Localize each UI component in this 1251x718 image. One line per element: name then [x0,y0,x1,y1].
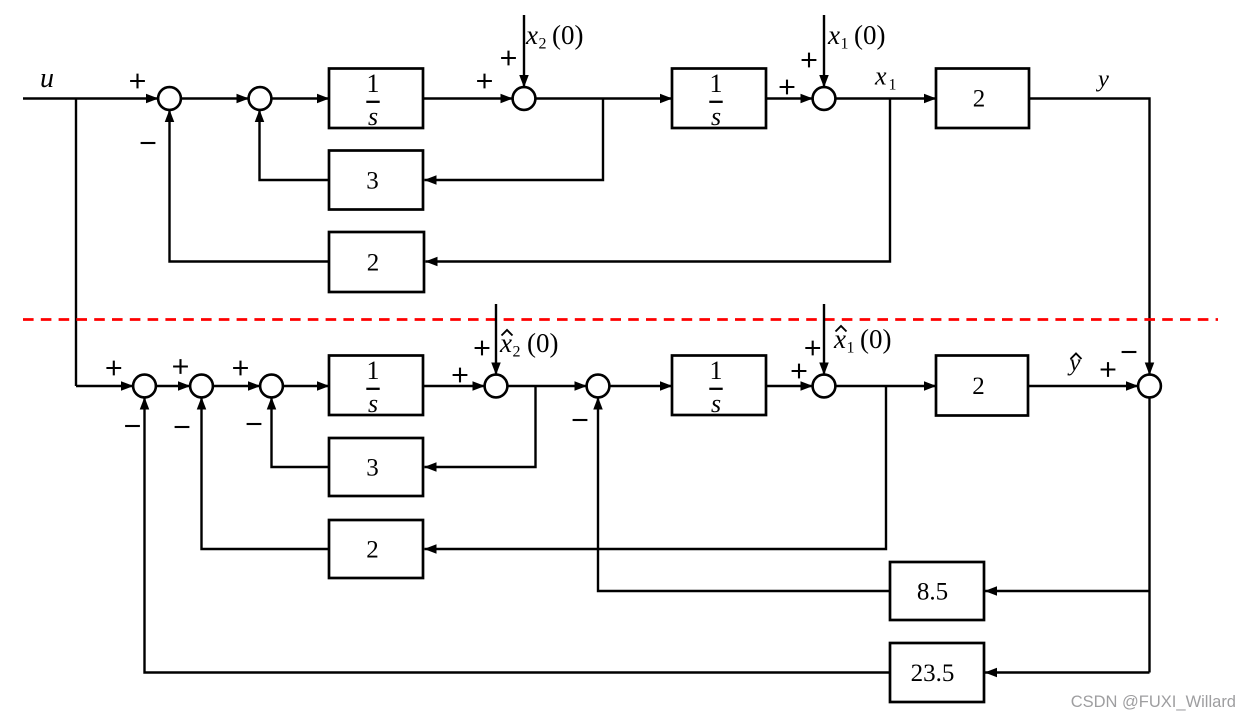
plus sign at O1 left input [106,361,121,376]
svg-text:1: 1 [847,340,855,357]
wire: into gain 8.5 [985,590,1150,592]
svg-text:CSDN @FUXI_Willard: CSDN @FUXI_Willard [1071,693,1236,711]
wire I4 to sum O6 [766,385,813,387]
svg-text:1: 1 [367,69,380,98]
svg-text:1: 1 [889,77,897,94]
plus sign at final sum left input [1101,362,1116,377]
plus sign at O6 left input [792,364,807,379]
svg-text:y: y [1067,350,1081,377]
wire: FS output down right side [1148,397,1150,672]
node: u branch junction and line down to observer [75,99,77,387]
svg-text:x: x [827,20,840,50]
wire: observer feedback block 2 output up into O2 [202,397,330,549]
minus sign at O3 bottom input [247,423,262,425]
wire O2 to O3 [213,385,260,387]
gain block 8.5 [890,562,984,620]
svg-text:1: 1 [710,69,723,98]
plus sign at O6 top input [805,341,820,356]
summing junction S2 [249,87,272,110]
observer output gain block 2 [936,356,1028,416]
wire O5 to integrator I4 [609,385,672,387]
wire O4 to O5 with branch [507,385,586,387]
red dashed divider line [23,318,1218,321]
svg-text:s: s [368,389,378,418]
gain block 23.5 [890,643,984,702]
wire: 8.5 output up into O5 [598,397,890,591]
svg-text:x: x [525,20,538,50]
integrator block I3 (1/s) [329,356,423,416]
svg-text:3: 3 [366,454,379,481]
integrator block I2 (1/s) [672,69,766,129]
wire O3 to integrator I3 [283,385,329,387]
wire: y output to final sum (down right side) [1029,99,1150,375]
plus sign at O4 left input [453,368,468,383]
integrator block I1 (1/s) [329,69,423,129]
wire O1 to O2 [156,385,190,387]
plus sign at O2 left input [173,359,188,374]
feedback block 2 (top) [329,232,424,292]
summing junction S4 (x1(0) injection) [813,87,836,110]
minus sign at final sum top input [1122,351,1137,353]
plus sign at S3 left input [477,74,492,89]
wire S2 to integrator I1 [271,97,329,99]
wire: feedback block 2 output up into S1 [170,110,330,262]
wire: branch down to feedback block 3 [425,99,604,181]
summing junction O5 [587,375,610,398]
svg-text:2: 2 [366,536,379,563]
wire: observer block 3 output up into O3 [272,397,330,467]
svg-text:2: 2 [973,86,986,113]
plus sign at O3 left input [233,361,248,376]
wire: initial condition xhat1(0) into O6 [823,304,825,375]
svg-text:2: 2 [367,249,380,276]
svg-text:8.5: 8.5 [917,578,948,605]
svg-text:(0): (0) [860,324,891,354]
wire: input u into sum S1 [23,97,158,99]
svg-text:2: 2 [539,36,547,53]
wire: 23.5 output up into O1 [145,397,891,672]
svg-text:1: 1 [710,356,723,385]
wire: block 3 output up into S2 [260,110,330,180]
svg-text:23.5: 23.5 [911,660,955,687]
summing junction FS (y - yhat) [1138,375,1161,398]
feedback block 3 (top) [329,151,423,210]
svg-text:y: y [1095,66,1109,93]
svg-text:2: 2 [972,373,985,400]
summing junction O6 (xhat1(0) injection) [813,375,836,398]
wire S3 to integrator I2 with branch node [535,97,672,99]
summing junction O4 (xhat2(0) injection) [485,375,508,398]
summing junction O1 [133,375,156,398]
wire: into gain 23.5 [985,671,1150,673]
summing junction S3 (x2(0) injection) [513,87,536,110]
wire S4 to gain block 2 (output) with x1 branch [835,97,936,99]
svg-text:u: u [40,63,54,94]
wire: initial condition x2(0) into S3 [523,15,525,87]
observer feedback block 3 [329,438,423,496]
integrator block I4 (1/s) [672,356,766,416]
output gain block 2 (top) [936,69,1029,129]
plus sign at O4 top input [475,341,490,356]
svg-text:(0): (0) [552,20,583,50]
minus sign at O5 bottom input [573,419,588,421]
summing junction O2 [190,375,213,398]
svg-text:(0): (0) [527,328,558,358]
wire I2 to sum S4 [766,97,813,99]
wire: x1 branch down to feedback block 2 [426,99,891,262]
svg-text:2: 2 [513,344,521,361]
observer feedback block 2 [329,520,423,578]
wire: yhat into final sum FS [1028,385,1138,387]
wire I1 to sum S3 [423,97,513,99]
minus sign at O2 bottom input [175,426,190,428]
plus sign at S3 top input [501,51,516,66]
wire S1 to S2 [181,97,249,99]
svg-text:1: 1 [367,356,380,385]
svg-text:s: s [711,389,721,418]
wire I3 to sum O4 [423,385,485,387]
plus sign at S4 left input [780,80,795,95]
svg-text:x: x [874,62,887,91]
svg-text:s: s [711,102,721,131]
svg-text:(0): (0) [854,20,885,50]
svg-text:s: s [368,102,378,131]
wire O6 to observer gain 2 with branch [835,385,936,387]
plus sign at S4 top input [802,53,817,68]
svg-text:3: 3 [366,167,379,194]
summing junction O3 [260,375,283,398]
wire: branch down to observer block 3 [425,386,536,467]
minus sign at S1 bottom input [141,142,156,144]
plus sign at S1 left input [130,74,145,89]
wire: branch down to observer feedback block 2 [425,386,887,549]
wire: u into observer sum O1 [76,385,133,387]
summing junction S1 [158,87,181,110]
minus sign at O1 bottom input [125,425,140,427]
svg-text:1: 1 [841,36,849,53]
wire: initial condition x1(0) into S4 [823,15,825,87]
wire: initial condition xhat2(0) into O4 [495,304,497,375]
